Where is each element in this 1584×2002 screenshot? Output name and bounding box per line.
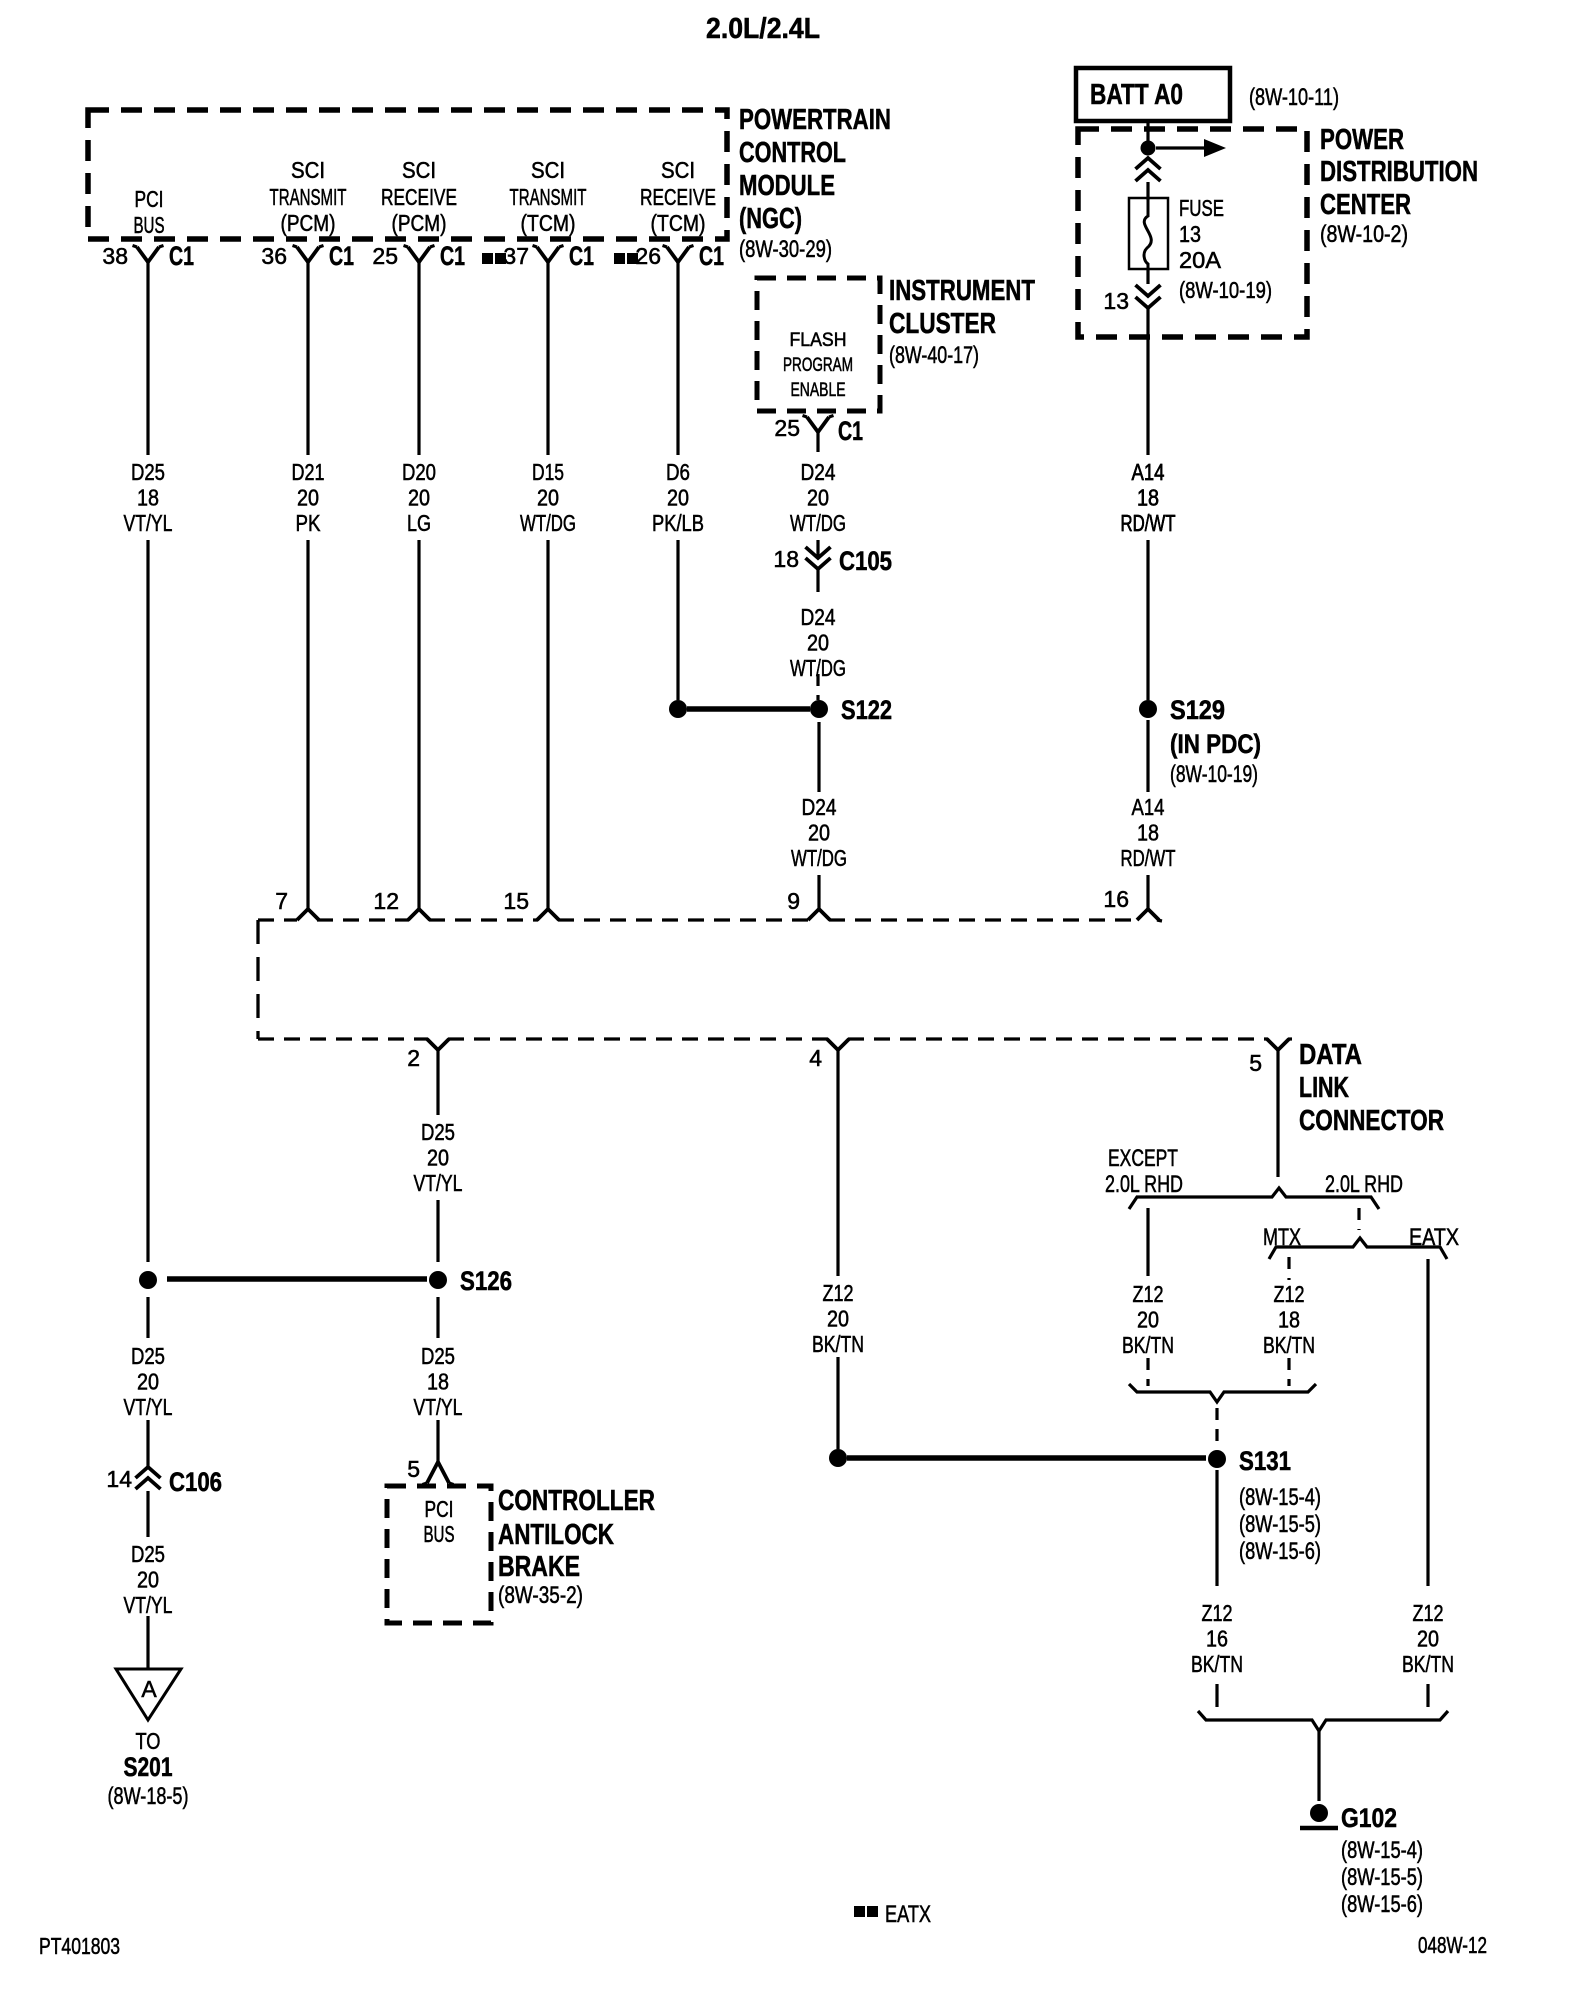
- svg-text:(8W-15-4): (8W-15-4): [1239, 1484, 1321, 1511]
- svg-text:(8W-30-29): (8W-30-29): [739, 236, 832, 263]
- svg-text:RD/WT: RD/WT: [1121, 510, 1176, 536]
- svg-text:18: 18: [427, 1369, 449, 1395]
- svg-text:4: 4: [809, 1045, 822, 1071]
- svg-text:18: 18: [773, 546, 799, 572]
- svg-text:20: 20: [137, 1369, 159, 1395]
- svg-text:WT/DG: WT/DG: [791, 845, 847, 871]
- svg-text:PROGRAM: PROGRAM: [783, 355, 853, 376]
- svg-text:13: 13: [1103, 288, 1129, 314]
- svg-text:20: 20: [667, 485, 689, 511]
- svg-text:18: 18: [137, 485, 159, 511]
- svg-text:14: 14: [106, 1466, 132, 1492]
- svg-text:PK/LB: PK/LB: [652, 510, 704, 536]
- svg-text:(8W-15-6): (8W-15-6): [1239, 1538, 1321, 1565]
- svg-text:MODULE: MODULE: [739, 170, 835, 202]
- svg-text:048W-12: 048W-12: [1418, 1932, 1487, 1958]
- svg-text:20: 20: [427, 1145, 449, 1171]
- svg-text:38: 38: [102, 243, 128, 269]
- svg-text:D20: D20: [402, 459, 436, 485]
- svg-text:C1: C1: [329, 241, 354, 271]
- svg-text:20: 20: [408, 485, 430, 511]
- svg-text:D15: D15: [532, 459, 564, 485]
- svg-text:13: 13: [1179, 221, 1201, 247]
- svg-text:BUS: BUS: [424, 1521, 455, 1547]
- svg-text:C1: C1: [169, 241, 194, 271]
- svg-text:POWER: POWER: [1320, 124, 1404, 156]
- svg-text:D24: D24: [801, 604, 836, 630]
- svg-text:D21: D21: [292, 459, 325, 485]
- svg-text:20: 20: [137, 1567, 159, 1593]
- svg-text:16: 16: [1206, 1626, 1228, 1652]
- svg-text:BK/TN: BK/TN: [1191, 1651, 1243, 1677]
- svg-text:36: 36: [261, 243, 287, 269]
- svg-text:(8W-15-4): (8W-15-4): [1341, 1837, 1423, 1864]
- svg-text:C1: C1: [699, 241, 724, 271]
- svg-text:S122: S122: [841, 695, 892, 725]
- svg-text:BK/TN: BK/TN: [1122, 1332, 1174, 1358]
- svg-text:18: 18: [1137, 820, 1159, 846]
- svg-text:2.0L/2.4L: 2.0L/2.4L: [706, 13, 820, 45]
- svg-text:SCI: SCI: [531, 157, 565, 183]
- svg-text:G102: G102: [1341, 1803, 1397, 1833]
- svg-text:VT/YL: VT/YL: [124, 1394, 173, 1420]
- svg-text:D25: D25: [131, 1343, 165, 1369]
- svg-text:(PCM): (PCM): [392, 210, 447, 236]
- svg-text:7: 7: [275, 888, 288, 914]
- svg-text:C1: C1: [838, 416, 863, 446]
- svg-text:PT401803: PT401803: [39, 1933, 120, 1959]
- svg-text:BRAKE: BRAKE: [498, 1551, 580, 1583]
- svg-text:(TCM): (TCM): [521, 210, 576, 236]
- svg-text:25: 25: [372, 243, 398, 269]
- svg-text:TRANSMIT: TRANSMIT: [270, 184, 347, 210]
- svg-text:C1: C1: [569, 241, 594, 271]
- svg-text:5: 5: [407, 1456, 420, 1482]
- svg-text:20: 20: [1417, 1626, 1439, 1652]
- svg-text:Z12: Z12: [823, 1280, 854, 1306]
- svg-text:A: A: [141, 1676, 157, 1702]
- svg-text:15: 15: [503, 888, 529, 914]
- svg-text:PCI: PCI: [425, 1496, 454, 1522]
- svg-text:TO: TO: [136, 1728, 161, 1754]
- svg-text:(8W-15-5): (8W-15-5): [1239, 1511, 1321, 1538]
- svg-text:C105: C105: [839, 546, 892, 576]
- svg-text:BATT A0: BATT A0: [1090, 79, 1183, 111]
- svg-text:2.0L RHD: 2.0L RHD: [1325, 1171, 1403, 1198]
- svg-text:Z12: Z12: [1202, 1600, 1233, 1626]
- svg-text:20: 20: [808, 820, 830, 846]
- svg-text:CENTER: CENTER: [1320, 189, 1411, 221]
- svg-text:(8W-18-5): (8W-18-5): [108, 1783, 189, 1810]
- svg-text:D24: D24: [801, 459, 836, 485]
- svg-text:VT/YL: VT/YL: [124, 1592, 173, 1618]
- svg-text:RECEIVE: RECEIVE: [640, 184, 716, 210]
- svg-text:VT/YL: VT/YL: [414, 1170, 463, 1196]
- svg-text:INSTRUMENT: INSTRUMENT: [889, 275, 1035, 307]
- svg-text:(8W-40-17): (8W-40-17): [889, 342, 979, 369]
- svg-text:A14: A14: [1132, 794, 1165, 820]
- svg-text:18: 18: [1137, 485, 1159, 511]
- svg-text:(8W-10-19): (8W-10-19): [1170, 761, 1258, 788]
- svg-text:(PCM): (PCM): [281, 210, 336, 236]
- svg-text:S129: S129: [1170, 695, 1225, 725]
- svg-text:D6: D6: [666, 459, 690, 485]
- svg-text:D25: D25: [421, 1119, 455, 1145]
- svg-text:RECEIVE: RECEIVE: [381, 184, 457, 210]
- svg-text:(NGC): (NGC): [739, 203, 802, 235]
- svg-text:20: 20: [807, 485, 829, 511]
- svg-text:SCI: SCI: [402, 157, 436, 183]
- svg-text:20A: 20A: [1179, 247, 1222, 273]
- svg-text:DATA: DATA: [1299, 1039, 1362, 1071]
- svg-text:D24: D24: [802, 794, 837, 820]
- svg-text:FLASH: FLASH: [790, 330, 847, 351]
- svg-text:PK: PK: [296, 510, 322, 536]
- svg-text:VT/YL: VT/YL: [414, 1394, 463, 1420]
- svg-text:CLUSTER: CLUSTER: [889, 308, 996, 340]
- svg-text:EATX: EATX: [1409, 1224, 1459, 1251]
- svg-text:16: 16: [1103, 886, 1129, 912]
- svg-text:S126: S126: [460, 1266, 512, 1296]
- svg-text:2: 2: [407, 1045, 420, 1071]
- svg-text:BK/TN: BK/TN: [1402, 1651, 1454, 1677]
- svg-text:CONTROLLER: CONTROLLER: [498, 1485, 655, 1517]
- svg-text:DISTRIBUTION: DISTRIBUTION: [1320, 156, 1478, 188]
- svg-text:(8W-10-19): (8W-10-19): [1179, 277, 1272, 303]
- svg-text:20: 20: [807, 630, 829, 656]
- svg-text:FUSE: FUSE: [1179, 195, 1224, 221]
- svg-text:SCI: SCI: [661, 157, 695, 183]
- svg-text:2.0L RHD: 2.0L RHD: [1105, 1171, 1183, 1198]
- svg-text:WT/DG: WT/DG: [520, 510, 576, 536]
- svg-text:POWERTRAIN: POWERTRAIN: [739, 104, 891, 136]
- svg-text:Z12: Z12: [1413, 1600, 1444, 1626]
- svg-text:Z12: Z12: [1274, 1281, 1305, 1307]
- svg-text:SCI: SCI: [291, 157, 325, 183]
- svg-text:CONNECTOR: CONNECTOR: [1299, 1105, 1444, 1137]
- svg-text:BK/TN: BK/TN: [812, 1331, 864, 1357]
- svg-text:12: 12: [373, 888, 399, 914]
- svg-text:20: 20: [1137, 1307, 1159, 1333]
- svg-text:LG: LG: [407, 510, 431, 536]
- svg-text:WT/DG: WT/DG: [790, 510, 846, 536]
- svg-text:PCI: PCI: [135, 186, 164, 212]
- svg-text:RD/WT: RD/WT: [1121, 845, 1176, 871]
- svg-text:20: 20: [827, 1306, 849, 1332]
- svg-text:20: 20: [297, 485, 319, 511]
- svg-text:MTX: MTX: [1263, 1224, 1301, 1251]
- svg-text:C1: C1: [440, 241, 465, 271]
- svg-text:25: 25: [774, 415, 800, 441]
- svg-text:(8W-10-11): (8W-10-11): [1249, 84, 1339, 111]
- svg-text:BUS: BUS: [134, 212, 165, 238]
- svg-text:26: 26: [635, 243, 661, 269]
- svg-text:Z12: Z12: [1133, 1281, 1164, 1307]
- svg-text:A14: A14: [1132, 459, 1165, 485]
- svg-text:EATX: EATX: [885, 1901, 931, 1928]
- svg-text:D25: D25: [131, 459, 165, 485]
- svg-text:5: 5: [1249, 1050, 1262, 1076]
- svg-text:LINK: LINK: [1299, 1072, 1349, 1104]
- svg-text:EXCEPT: EXCEPT: [1108, 1145, 1178, 1172]
- svg-text:ENABLE: ENABLE: [791, 380, 846, 401]
- svg-text:S131: S131: [1239, 1446, 1291, 1476]
- svg-text:CONTROL: CONTROL: [739, 137, 846, 169]
- svg-text:D25: D25: [421, 1343, 455, 1369]
- svg-text:D25: D25: [131, 1541, 165, 1567]
- svg-text:(IN PDC): (IN PDC): [1170, 729, 1261, 759]
- svg-text:TRANSMIT: TRANSMIT: [510, 184, 587, 210]
- svg-text:37: 37: [503, 243, 529, 269]
- svg-text:BK/TN: BK/TN: [1263, 1332, 1315, 1358]
- svg-text:(8W-10-2): (8W-10-2): [1320, 221, 1408, 248]
- svg-text:VT/YL: VT/YL: [124, 510, 173, 536]
- svg-text:18: 18: [1278, 1307, 1300, 1333]
- svg-text:S201: S201: [124, 1752, 173, 1782]
- svg-text:9: 9: [787, 888, 800, 914]
- svg-text:(TCM): (TCM): [651, 210, 706, 236]
- svg-text:C106: C106: [169, 1467, 222, 1497]
- svg-text:(8W-15-5): (8W-15-5): [1341, 1864, 1423, 1891]
- svg-text:ANTILOCK: ANTILOCK: [498, 1519, 614, 1551]
- svg-text:(8W-15-6): (8W-15-6): [1341, 1891, 1423, 1918]
- svg-text:20: 20: [537, 485, 559, 511]
- svg-text:(8W-35-2): (8W-35-2): [498, 1582, 583, 1609]
